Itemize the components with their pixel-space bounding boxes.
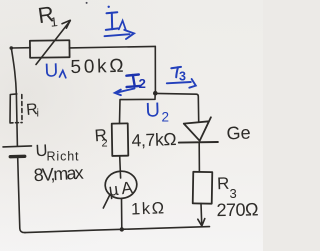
- wire left rail upper (corner down to battery): [11, 48, 17, 146]
- svg-text:270Ω: 270Ω: [216, 199, 258, 220]
- current arrow I3: [167, 79, 196, 88]
- ammeter pen tail: [103, 196, 109, 209]
- wire left rail lower (battery down to bottom corner): [18, 158, 25, 233]
- current label I3: [171, 67, 181, 77]
- current arrow I2: [115, 88, 135, 95]
- wire bottom rail: [25, 227, 210, 233]
- label U2: [145, 99, 169, 124]
- arrowhead at bottom of R3 wire: [198, 219, 205, 226]
- svg-text:U: U: [44, 60, 58, 81]
- svg-text:U: U: [145, 99, 160, 121]
- label U Richt: [35, 142, 79, 164]
- svg-text:50kΩ: 50kΩ: [70, 56, 124, 78]
- svg-text:Ge: Ge: [226, 122, 251, 143]
- label R1: [36, 1, 58, 30]
- dark speck: [86, 2, 88, 4]
- arrow through R1 (variable resistor): [36, 21, 70, 65]
- diode D1 cathode bar: [179, 141, 218, 144]
- current arrow I1: [105, 30, 135, 39]
- svg-text:2: 2: [102, 138, 108, 150]
- svg-text:R: R: [217, 174, 230, 193]
- resistor R3 body: [193, 172, 213, 204]
- label R2: [94, 126, 108, 150]
- svg-text:1kΩ: 1kΩ: [131, 199, 165, 218]
- node bottom junction: [120, 227, 124, 231]
- wire R2 to ammeter: [119, 156, 122, 178]
- svg-text:Richt: Richt: [47, 150, 80, 164]
- wire R3 to bottom rail: [200, 204, 203, 227]
- blue speck: [108, 6, 110, 8]
- svg-text:i: i: [37, 108, 39, 120]
- diode D1 triangle: [184, 117, 211, 141]
- ammeter A1 body: [104, 170, 137, 199]
- svg-text:4,7kΩ: 4,7kΩ: [131, 129, 177, 151]
- resistor R2 body: [112, 123, 129, 156]
- label R3: [217, 174, 237, 201]
- wire node to R2 branch: [120, 94, 156, 124]
- current label I2: [126, 75, 140, 88]
- current label I1: [106, 12, 126, 30]
- resistor R1 body: [30, 40, 70, 57]
- battery positive plate: [3, 146, 32, 147]
- wire from R1 left terminal to left rail: [12, 47, 31, 49]
- battery negative plate: [10, 155, 24, 159]
- svg-text:3: 3: [230, 186, 237, 201]
- svg-text:2: 2: [139, 76, 146, 91]
- node top-left corner: [10, 46, 14, 50]
- svg-text:2: 2: [162, 110, 170, 125]
- internal resistance Ri dashed box: [10, 94, 17, 122]
- wire node to diode branch: [156, 93, 199, 121]
- node junction U2: [153, 91, 158, 96]
- wire down from top rail to node U2: [154, 46, 156, 92]
- label U1: [44, 60, 66, 81]
- wire diode to R3: [198, 143, 200, 172]
- label Ri: [25, 101, 38, 119]
- svg-text:8V,max: 8V,max: [33, 163, 84, 186]
- wire ammeter to bottom node: [121, 199, 123, 229]
- wire top from R1 to node column: [70, 46, 156, 48]
